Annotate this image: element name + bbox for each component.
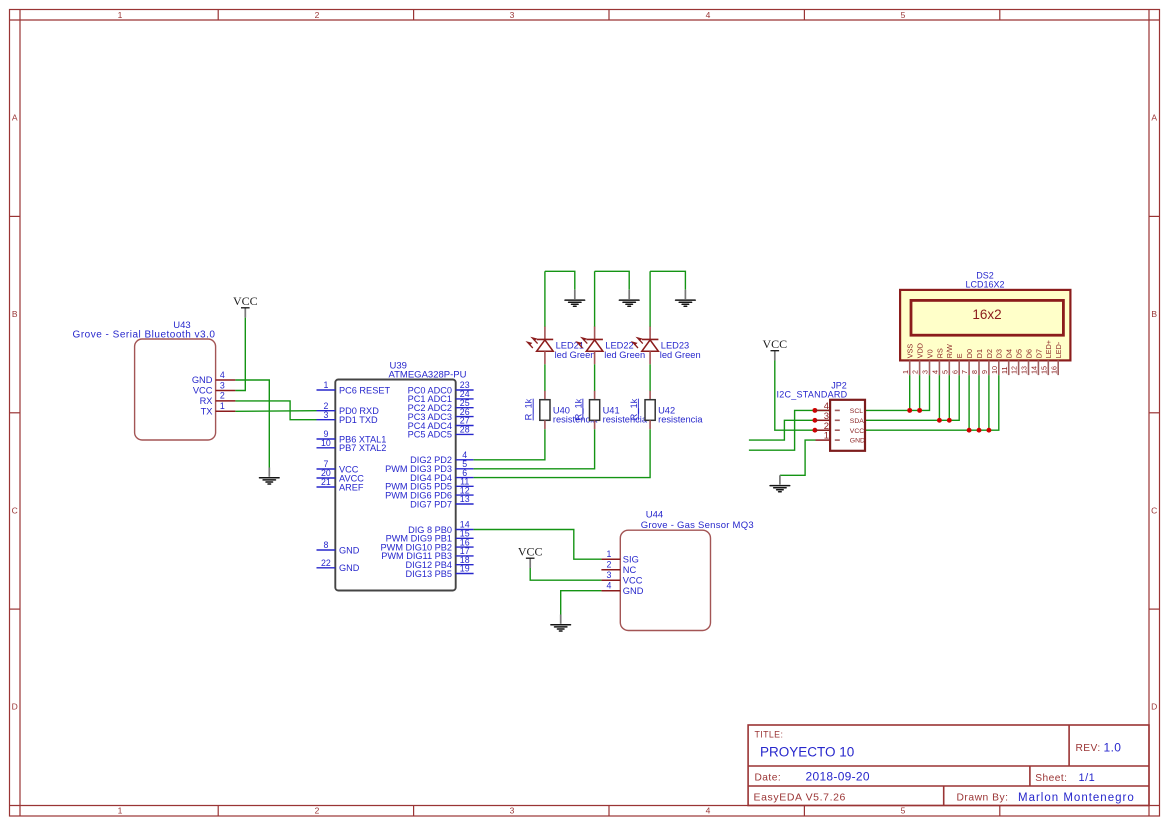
JP2 pin 1 GND xyxy=(816,431,865,445)
svg-text:5: 5 xyxy=(901,806,906,816)
svg-text:Date:: Date: xyxy=(755,772,782,783)
wire LCD pin 2 drop xyxy=(919,375,921,410)
wire SDA rail JP2 pin3 / LCD RS,R/W,E xyxy=(749,375,959,440)
ground of JP2 xyxy=(770,475,790,492)
svg-text:D: D xyxy=(12,702,18,712)
svg-text:VCC: VCC xyxy=(518,544,543,558)
DS2 pin 4 RS xyxy=(931,348,945,375)
svg-text:5: 5 xyxy=(940,370,949,374)
svg-text:Sheet:: Sheet: xyxy=(1035,773,1067,784)
svg-text:V0: V0 xyxy=(925,349,934,358)
svg-text:LED22: LED22 xyxy=(605,340,633,350)
svg-text:GND: GND xyxy=(339,545,360,555)
U39 pin 20 AVCC xyxy=(317,468,365,483)
svg-text:R/W: R/W xyxy=(945,344,954,358)
svg-text:RS: RS xyxy=(935,348,944,358)
svg-text:D7: D7 xyxy=(1034,349,1043,358)
svg-text:SDA: SDA xyxy=(850,418,864,425)
svg-text:6: 6 xyxy=(950,370,959,374)
wire LCD pin 1 drop xyxy=(909,375,911,410)
connector JP2 I2C_STANDARD body xyxy=(777,381,866,451)
svg-text:E: E xyxy=(955,353,964,358)
svg-text:LED+: LED+ xyxy=(1044,340,1053,358)
svg-text:AREF: AREF xyxy=(339,482,364,492)
svg-text:D4: D4 xyxy=(1005,349,1014,358)
svg-text:A: A xyxy=(12,113,18,123)
wire U44 GND to ground xyxy=(561,591,602,615)
JP2 pin 3 SDA xyxy=(816,411,865,425)
U39 pin 6 DIG4 PD4 xyxy=(410,468,473,483)
svg-text:D0: D0 xyxy=(965,349,974,358)
svg-text:DIG13 PB5: DIG13 PB5 xyxy=(406,569,452,579)
svg-text:ATMEGA328P-PU: ATMEGA328P-PU xyxy=(389,370,467,381)
ground above LED21 xyxy=(565,290,585,307)
wire LCD pin 9 drop xyxy=(988,375,990,430)
svg-text:Marlon Montenegro: Marlon Montenegro xyxy=(1018,792,1135,804)
svg-text:VCC: VCC xyxy=(850,428,864,435)
svg-text:D3: D3 xyxy=(995,349,1004,358)
wire LCD pin 8 drop xyxy=(978,375,980,430)
svg-text:C: C xyxy=(1151,506,1157,516)
U39 pin 9 PB6 XTAL1 xyxy=(317,429,387,444)
svg-text:10: 10 xyxy=(321,438,331,448)
U39 pin 14 DIG 8 PB0 xyxy=(408,520,474,535)
svg-text:19: 19 xyxy=(460,564,470,574)
wire LED23 anode to U42 xyxy=(649,364,651,391)
svg-text:13: 13 xyxy=(1020,366,1029,374)
svg-text:2: 2 xyxy=(315,10,320,20)
svg-text:SCL: SCL xyxy=(850,408,863,415)
svg-text:R_1k: R_1k xyxy=(524,398,534,420)
JP2 pin 4 SCL xyxy=(816,401,864,415)
svg-text:8: 8 xyxy=(323,540,328,550)
U39 pin 10 PB7 XTAL2 xyxy=(317,438,387,453)
U39 pin 22 GND xyxy=(317,558,360,573)
power flag VCC near U43 xyxy=(233,294,258,318)
svg-text:21: 21 xyxy=(321,477,331,487)
svg-text:U44: U44 xyxy=(646,510,663,521)
DS2 pin 7 D0 xyxy=(960,349,974,375)
svg-text:1: 1 xyxy=(118,806,123,816)
wire SCL rail JP2 pin4 / LCD VSS,VDD,V0 xyxy=(749,375,930,450)
U39 pin 12 PWM DIG6 PD6 xyxy=(385,485,473,500)
svg-text:VCC: VCC xyxy=(762,337,787,351)
resistor U41 resistencia value R_1k xyxy=(573,391,647,429)
U39 pin 18 DIG12 PB4 xyxy=(406,555,474,570)
U39 pin 24 PC1 ADC1 xyxy=(408,389,474,404)
svg-text:28: 28 xyxy=(460,425,470,435)
wire LCD pin 5 drop xyxy=(948,375,950,420)
wire U43 RX to U39 PD1 TXD xyxy=(235,401,316,420)
svg-text:resistencia: resistencia xyxy=(603,414,648,424)
DS2 pin 16 LED- xyxy=(1049,341,1063,375)
junction xyxy=(947,418,952,423)
svg-text:1: 1 xyxy=(824,431,829,442)
junction xyxy=(977,428,982,433)
svg-text:4: 4 xyxy=(931,370,940,374)
LED LED22 led Green xyxy=(577,327,645,365)
junction xyxy=(812,418,817,423)
wire LED21 top to ground xyxy=(545,271,575,290)
svg-text:22: 22 xyxy=(321,558,331,568)
DS2 pin 3 V0 xyxy=(921,349,935,375)
svg-text:LED23: LED23 xyxy=(661,340,689,350)
DS2 pin 10 D3 xyxy=(990,349,1004,375)
svg-text:3: 3 xyxy=(323,410,328,420)
svg-text:1: 1 xyxy=(220,401,225,411)
U39 pin 17 PWM DIG11 PB3 xyxy=(381,546,473,561)
svg-text:1: 1 xyxy=(323,380,328,390)
DS2 pin 15 LED+ xyxy=(1039,340,1053,375)
wire VCC rail JP2 pin2 / LCD D0-D3 xyxy=(775,361,999,431)
wire LED21 anode to U40 xyxy=(544,364,546,391)
svg-text:4: 4 xyxy=(706,10,711,20)
U43 pin 3 VCC xyxy=(193,380,236,395)
svg-text:GND: GND xyxy=(850,438,865,445)
svg-text:13: 13 xyxy=(460,494,470,504)
svg-text:Grove - Gas Sensor MQ3: Grove - Gas Sensor MQ3 xyxy=(641,520,754,531)
LED LED21 led Green xyxy=(528,327,596,365)
U43 pin 1 TX xyxy=(201,401,236,416)
svg-text:15: 15 xyxy=(1039,366,1048,374)
svg-text:GND: GND xyxy=(192,375,213,385)
svg-text:SIG: SIG xyxy=(623,554,639,564)
wire U39 pin14 to U44 SIG xyxy=(474,530,602,560)
svg-text:D1: D1 xyxy=(975,349,984,358)
svg-text:1: 1 xyxy=(606,549,611,559)
svg-text:R_1k: R_1k xyxy=(573,398,583,420)
junction xyxy=(917,408,922,413)
DS2 pin 9 D2 xyxy=(980,349,994,375)
svg-text:5: 5 xyxy=(901,10,906,20)
U39 pin 26 PC3 ADC3 xyxy=(408,407,474,422)
svg-text:D6: D6 xyxy=(1024,349,1033,358)
wire U42 to U39 pin 6 xyxy=(474,429,650,477)
wire LED23 top to ground xyxy=(650,271,685,290)
svg-text:TX: TX xyxy=(201,407,213,417)
DS2 pin 8 D1 xyxy=(970,349,984,375)
svg-text:3: 3 xyxy=(921,370,930,374)
wire U43 GND to ground xyxy=(235,380,269,468)
svg-text:Drawn By:: Drawn By: xyxy=(957,793,1009,804)
svg-text:3: 3 xyxy=(510,806,515,816)
power flag VCC near JP2 xyxy=(762,337,787,361)
svg-text:2: 2 xyxy=(315,806,320,816)
svg-text:NC: NC xyxy=(623,565,637,575)
wire U43 TX to U39 PD0 RXD xyxy=(235,410,316,413)
wire LED22 cathode up xyxy=(594,271,596,327)
svg-text:GND: GND xyxy=(339,563,360,573)
svg-text:resistencia: resistencia xyxy=(658,414,703,424)
IC U39 ATMEGA328P-PU body xyxy=(335,361,466,591)
U44 pin 1 SIG xyxy=(601,549,638,564)
U39 pin 11 PWM DIG5 PD5 xyxy=(385,477,473,492)
U44 pin 3 VCC xyxy=(601,570,642,585)
U39 pin 4 DIG2 PD2 xyxy=(410,450,473,465)
U39 pin 23 PC0 ADC0 xyxy=(408,380,474,395)
U39 pin 2 PD0 RXD xyxy=(317,401,380,416)
svg-text:D5: D5 xyxy=(1015,349,1024,358)
U39 pin 25 PC2 ADC2 xyxy=(408,398,474,413)
junction xyxy=(812,428,817,433)
junction xyxy=(967,428,972,433)
svg-text:VCC: VCC xyxy=(193,386,213,396)
svg-text:B: B xyxy=(1151,309,1157,319)
U39 pin 1 PC6 RESET xyxy=(317,380,391,395)
wire LCD pin 4 drop xyxy=(938,375,940,420)
DS2 pin 6 E xyxy=(950,353,964,375)
svg-text:LED-: LED- xyxy=(1054,341,1063,358)
U43 pin 2 RX xyxy=(200,391,236,406)
U44 pin 4 GND xyxy=(601,581,643,596)
svg-text:2: 2 xyxy=(220,391,225,401)
DS2 pin 5 R/W xyxy=(940,344,954,375)
svg-text:1/1: 1/1 xyxy=(1079,772,1096,784)
svg-text:16x2: 16x2 xyxy=(972,307,1001,322)
wire U41 to U39 pin 5 xyxy=(474,429,595,469)
wire LCD pin 7 drop xyxy=(968,375,970,430)
svg-text:PC6 RESET: PC6 RESET xyxy=(339,385,390,395)
svg-text:2: 2 xyxy=(911,370,920,374)
svg-text:2: 2 xyxy=(606,560,611,570)
svg-text:3: 3 xyxy=(510,10,515,20)
svg-text:10: 10 xyxy=(990,366,999,374)
svg-text:PB7 XTAL2: PB7 XTAL2 xyxy=(339,443,386,453)
wire LED22 anode to U41 xyxy=(594,364,596,391)
svg-text:LCD16X2: LCD16X2 xyxy=(965,280,1004,290)
svg-text:EasyEDA V5.7.26: EasyEDA V5.7.26 xyxy=(754,792,846,804)
U39 pin 19 DIG13 PB5 xyxy=(406,564,474,579)
svg-text:B: B xyxy=(12,309,18,319)
U39 pin 16 PWM DIG10 PB2 xyxy=(381,537,474,552)
wire U40 to U39 pin 4 xyxy=(474,429,545,460)
wire LED21 cathode up xyxy=(544,271,546,327)
svg-text:TITLE:: TITLE: xyxy=(755,730,784,740)
svg-text:PC5 ADC5: PC5 ADC5 xyxy=(408,430,452,440)
svg-text:4: 4 xyxy=(606,581,611,591)
title block xyxy=(748,725,1149,806)
junction xyxy=(907,408,912,413)
svg-text:12: 12 xyxy=(1010,366,1019,374)
svg-text:1: 1 xyxy=(901,370,910,374)
wire LED22 top to ground xyxy=(595,271,630,290)
wire JP2 GND to ground xyxy=(780,440,816,475)
svg-text:GND: GND xyxy=(623,586,644,596)
resistor U40 resistencia value R_1k xyxy=(524,391,598,429)
power flag VCC near U44 xyxy=(518,544,543,568)
svg-text:1: 1 xyxy=(118,10,123,20)
DS2 pin 2 VDD xyxy=(911,343,925,375)
U39 pin 5 PWM DIG3 PD3 xyxy=(385,459,473,474)
wire U43 VCC to VCC flag xyxy=(235,318,245,391)
ground above LED22 xyxy=(619,290,639,307)
DS2 pin 14 D7 xyxy=(1030,349,1044,375)
svg-text:VCC: VCC xyxy=(233,294,258,308)
svg-text:11: 11 xyxy=(1000,367,1009,374)
component U43 Grove - Serial Bluetooth v3.0 body xyxy=(73,320,216,440)
svg-text:D: D xyxy=(1151,702,1157,712)
resistor U42 resistencia value R_1k xyxy=(629,391,703,429)
svg-text:4: 4 xyxy=(706,806,711,816)
svg-text:PD1 TXD: PD1 TXD xyxy=(339,415,378,425)
svg-text:3: 3 xyxy=(220,380,225,390)
DS2 pin 12 D5 xyxy=(1010,349,1024,375)
DS2 pin 1 VSS xyxy=(901,344,915,375)
svg-text:D2: D2 xyxy=(985,349,994,358)
DS2 pin 13 D6 xyxy=(1020,349,1034,375)
svg-text:RX: RX xyxy=(200,396,213,406)
U39 pin 27 PC4 ADC4 xyxy=(408,416,474,431)
U39 pin 21 AREF xyxy=(317,477,364,492)
U39 pin 15 PWM DIG9 PB1 xyxy=(386,529,474,544)
U39 pin 8 GND xyxy=(317,540,360,555)
U39 pin 7 VCC xyxy=(317,459,359,474)
U39 pin 13 DIG7 PD7 xyxy=(410,494,473,509)
ground of U44 xyxy=(551,615,571,632)
svg-text:DIG7 PD7: DIG7 PD7 xyxy=(410,499,452,509)
JP2 pin 2 VCC xyxy=(816,421,865,435)
svg-text:3: 3 xyxy=(606,570,611,580)
svg-text:I2C_STANDARD: I2C_STANDARD xyxy=(777,389,848,399)
U44 pin 2 NC xyxy=(601,560,636,575)
junction xyxy=(937,418,942,423)
U39 pin 3 PD1 TXD xyxy=(317,410,378,425)
svg-text:R_1k: R_1k xyxy=(629,398,639,420)
U39 pin 28 PC5 ADC5 xyxy=(408,425,474,440)
ground above LED23 xyxy=(676,290,696,307)
DS2 pin 11 D4 xyxy=(1000,349,1014,375)
svg-text:2018-09-20: 2018-09-20 xyxy=(806,769,870,783)
LED LED23 led Green xyxy=(633,327,701,365)
svg-text:VSS: VSS xyxy=(906,344,915,359)
svg-text:led Green: led Green xyxy=(604,350,645,360)
svg-text:VDD: VDD xyxy=(916,343,925,358)
svg-text:14: 14 xyxy=(1030,366,1039,374)
svg-text:16: 16 xyxy=(1049,366,1058,374)
svg-text:A: A xyxy=(1151,113,1157,123)
U43 pin 4 GND xyxy=(192,370,236,385)
svg-text:led Green: led Green xyxy=(660,350,701,360)
svg-text:REV:: REV: xyxy=(1076,743,1101,754)
svg-text:1.0: 1.0 xyxy=(1104,741,1122,755)
svg-text:8: 8 xyxy=(970,370,979,374)
svg-text:4: 4 xyxy=(220,370,225,380)
wire VCC to U44 VCC xyxy=(530,568,601,580)
junction xyxy=(812,408,817,413)
svg-text:C: C xyxy=(12,506,18,516)
display DS2 LCD16X2 body xyxy=(900,271,1070,361)
junction xyxy=(986,428,991,433)
svg-text:PROYECTO 10: PROYECTO 10 xyxy=(760,744,854,759)
ground of U43 GND xyxy=(260,468,280,485)
component U44 Grove - Gas Sensor MQ3 body xyxy=(620,510,754,631)
svg-text:9: 9 xyxy=(980,370,989,374)
svg-text:Grove - Serial Bluetooth v3.0: Grove - Serial Bluetooth v3.0 xyxy=(73,330,216,341)
svg-text:VCC: VCC xyxy=(623,575,643,585)
svg-text:7: 7 xyxy=(960,370,969,374)
wire LED23 cathode up xyxy=(649,271,651,327)
